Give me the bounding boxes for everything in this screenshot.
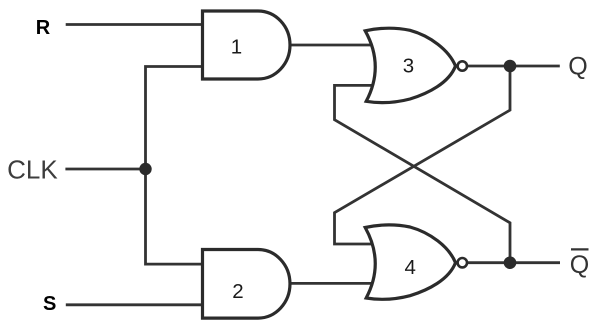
svg-text:S: S bbox=[43, 293, 56, 315]
svg-text:R: R bbox=[36, 17, 51, 39]
svg-text:CLK: CLK bbox=[7, 155, 58, 185]
svg-text:4: 4 bbox=[404, 256, 415, 279]
svg-text:Q: Q bbox=[570, 251, 589, 279]
svg-text:3: 3 bbox=[403, 54, 414, 77]
svg-text:Q: Q bbox=[568, 53, 587, 81]
svg-text:1: 1 bbox=[231, 36, 242, 59]
svg-text:2: 2 bbox=[232, 280, 243, 303]
